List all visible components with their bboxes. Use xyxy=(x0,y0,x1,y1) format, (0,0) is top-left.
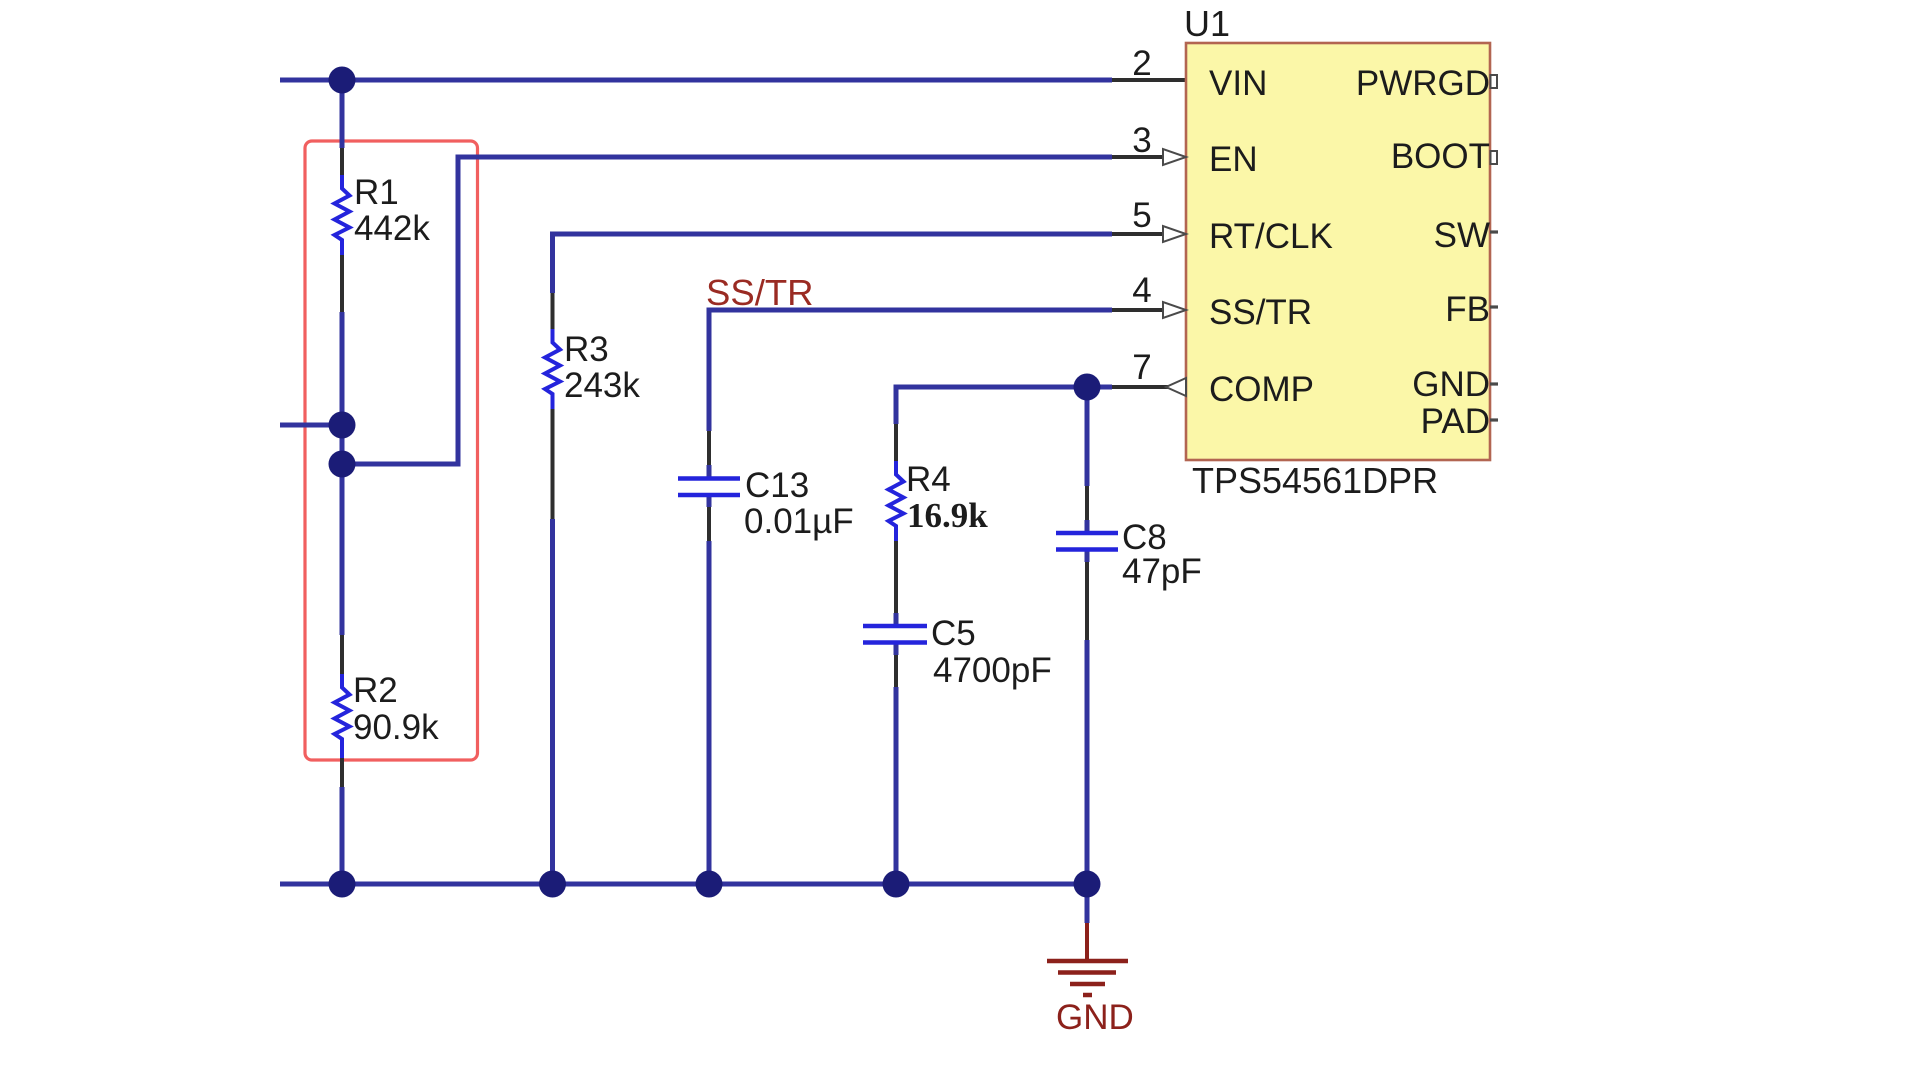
svg-text:C13: C13 xyxy=(745,466,809,505)
svg-text:R4: R4 xyxy=(906,460,951,499)
svg-text:R1: R1 xyxy=(354,173,399,212)
svg-text:VIN: VIN xyxy=(1209,64,1267,103)
svg-text:4: 4 xyxy=(1132,271,1151,310)
svg-text:442k: 442k xyxy=(354,209,430,248)
svg-text:PWRGD: PWRGD xyxy=(1356,64,1490,103)
svg-text:SW: SW xyxy=(1434,216,1490,255)
svg-text:GND: GND xyxy=(1056,998,1134,1037)
svg-text:4700pF: 4700pF xyxy=(933,651,1052,690)
svg-text:RT/CLK: RT/CLK xyxy=(1209,217,1333,256)
svg-text:U1: U1 xyxy=(1184,3,1230,44)
svg-text:0.01µF: 0.01µF xyxy=(744,502,854,541)
svg-text:243k: 243k xyxy=(564,366,640,405)
svg-text:COMP: COMP xyxy=(1209,370,1314,409)
svg-text:PAD: PAD xyxy=(1421,402,1490,441)
svg-text:SS/TR: SS/TR xyxy=(706,272,814,313)
svg-text:EN: EN xyxy=(1209,140,1258,179)
svg-text:5: 5 xyxy=(1132,196,1151,235)
svg-text:GND: GND xyxy=(1412,365,1490,404)
svg-text:R3: R3 xyxy=(564,330,609,369)
svg-text:TPS54561DPR: TPS54561DPR xyxy=(1192,460,1438,501)
svg-text:BOOT: BOOT xyxy=(1391,137,1490,176)
svg-text:3: 3 xyxy=(1132,121,1151,160)
svg-text:SS/TR: SS/TR xyxy=(1209,293,1312,332)
svg-text:90.9k: 90.9k xyxy=(353,708,439,747)
svg-text:47pF: 47pF xyxy=(1122,552,1202,591)
svg-text:2: 2 xyxy=(1132,44,1151,83)
svg-text:C5: C5 xyxy=(931,614,976,653)
svg-text:16.9k: 16.9k xyxy=(907,496,988,535)
svg-text:R2: R2 xyxy=(353,671,398,710)
svg-text:FB: FB xyxy=(1445,290,1490,329)
svg-text:7: 7 xyxy=(1132,348,1151,387)
